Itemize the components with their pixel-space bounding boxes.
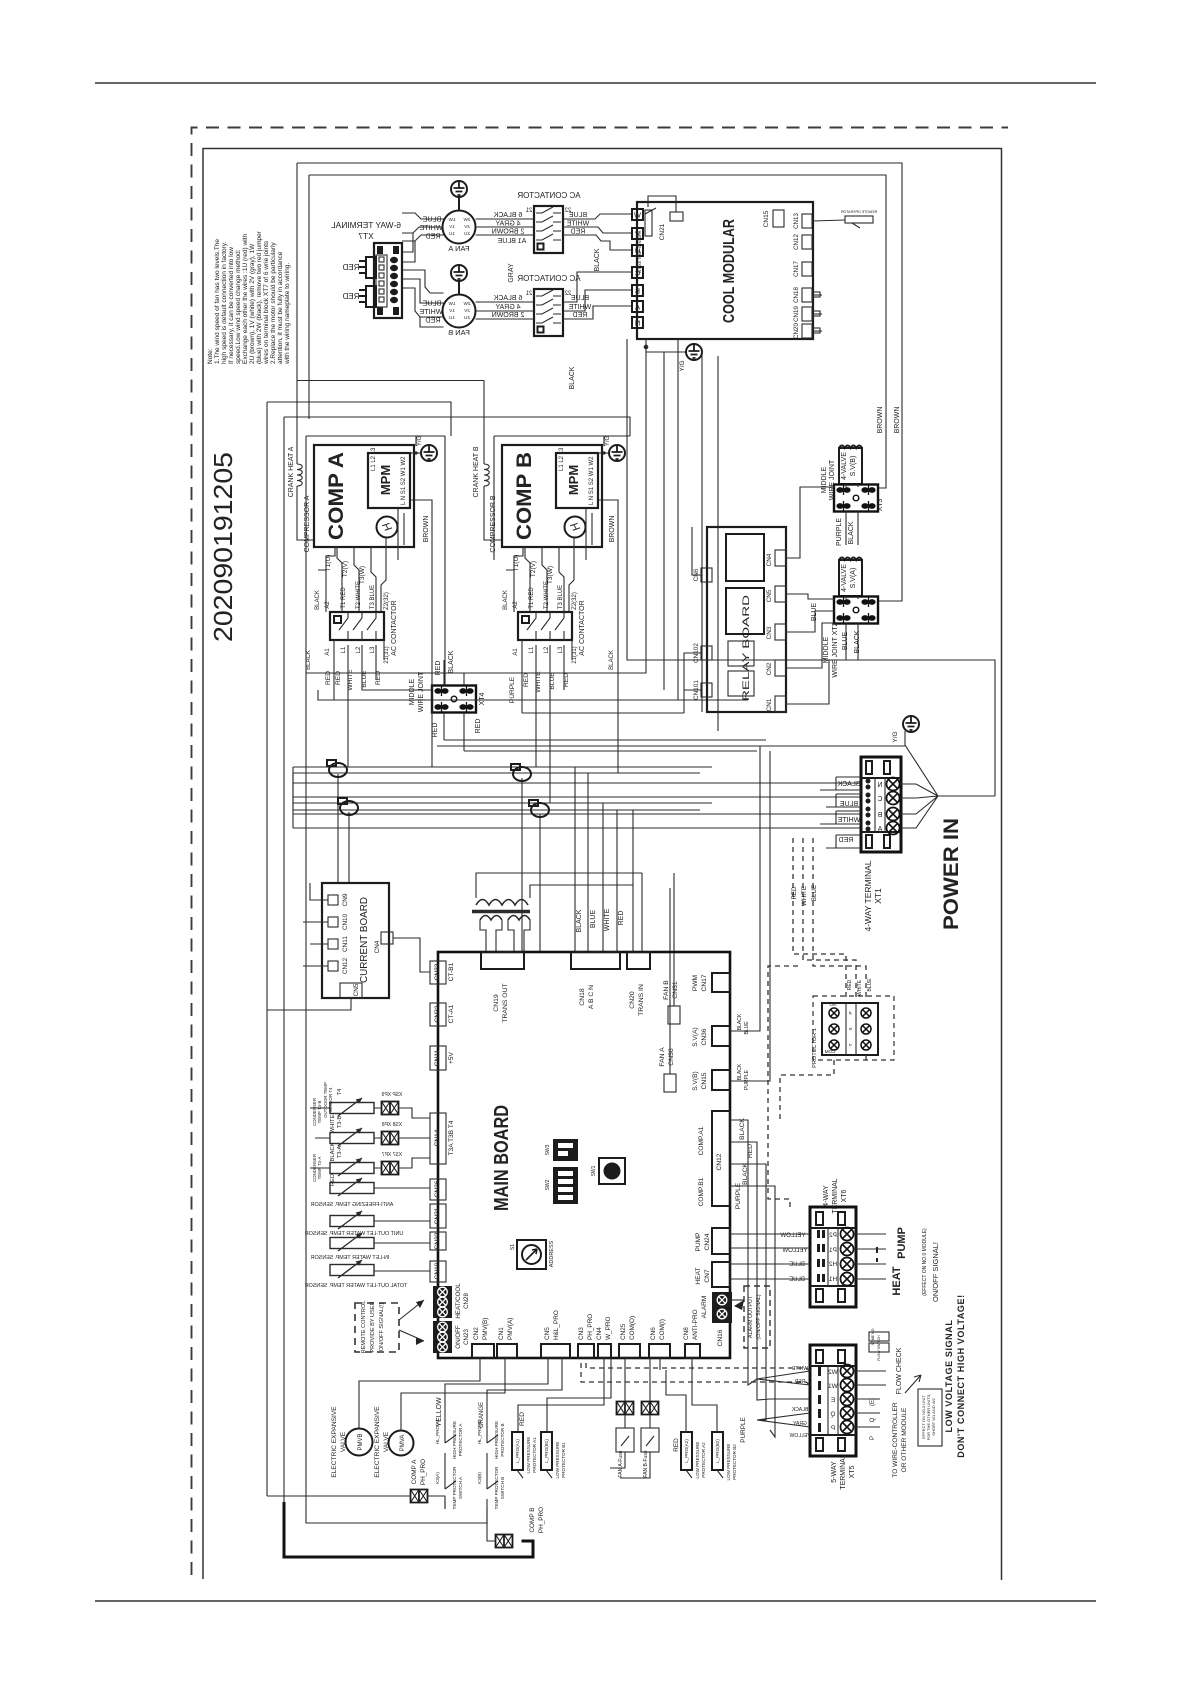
svg-text:B: B [635, 287, 640, 296]
svg-text:CN20: CN20 [793, 323, 800, 339]
svg-text:MPM: MPM [378, 465, 393, 495]
svg-text:L3: L3 [558, 646, 564, 653]
svg-text:2W: 2W [463, 217, 471, 222]
svg-text:AC CONTACTOR: AC CONTACTOR [391, 600, 398, 655]
svg-text:CN1: CN1 [766, 698, 773, 711]
svg-text:22: 22 [564, 291, 571, 297]
svg-text:TEMP T3-A: TEMP T3-A [317, 1157, 322, 1180]
svg-text:Q: Q [830, 1411, 835, 1418]
svg-text:S: S [848, 1027, 853, 1030]
svg-text:PMVA: PMVA [400, 1435, 406, 1452]
svg-text:S.V(A): S.V(A) [692, 1027, 699, 1046]
svg-text:HL_PRO(B): HL_PRO(B) [477, 1419, 482, 1444]
svg-text:T2 WHITE: T2 WHITE [356, 581, 362, 609]
svg-text:CN12: CN12 [716, 1153, 723, 1170]
svg-text:HL_PRO(A): HL_PRO(A) [435, 1419, 440, 1444]
svg-text:W1: W1 [828, 1383, 838, 1390]
svg-text:RED: RED [342, 292, 359, 301]
svg-text:BLACK: BLACK [739, 1118, 746, 1140]
svg-text:1V: 1V [448, 308, 455, 313]
svg-text:4 GRAY: 4 GRAY [495, 221, 520, 228]
svg-text:CN17: CN17 [701, 974, 708, 991]
svg-text:P2: P2 [829, 1232, 837, 1239]
svg-text:PH_PRO: PH_PRO [538, 1507, 545, 1533]
svg-text:AC CONTACTOR: AC CONTACTOR [579, 600, 586, 655]
svg-text:W2: W2 [828, 1369, 838, 1376]
svg-text:RELAY BOARD: RELAY BOARD [741, 595, 752, 701]
svg-text:BLACK: BLACK [737, 1063, 743, 1080]
svg-text:RED: RED [847, 979, 853, 990]
svg-text:L_PRO(B2): L_PRO(B2) [715, 1439, 720, 1463]
svg-text:CN20: CN20 [629, 991, 636, 1009]
svg-text:IN-LET WATER TEMP. SENSOR: IN-LET WATER TEMP. SENSOR [311, 1255, 390, 1261]
svg-text:PROTECTOR B2: PROTECTOR B2 [732, 1444, 737, 1480]
svg-text:21(31): 21(31) [384, 646, 390, 663]
svg-text:BLACK: BLACK [503, 590, 509, 610]
svg-text:BLACK: BLACK [737, 1013, 743, 1030]
svg-text:LOW PRESSURE: LOW PRESSURE [726, 1443, 731, 1480]
svg-text:VALVE: VALVE [383, 1431, 390, 1452]
svg-text:INTAKE TEMP. SENSORS: INTAKE TEMP. SENSORS [638, 230, 642, 273]
svg-text:TRANS IN: TRANS IN [638, 984, 645, 1016]
svg-text:A2: A2 [513, 601, 519, 609]
svg-text:FAN B-Fuse: FAN B-Fuse [643, 1450, 649, 1477]
svg-text:MPM: MPM [566, 465, 581, 495]
svg-text:WIRE JOINT: WIRE JOINT [829, 459, 836, 500]
svg-text:Y/G: Y/G [417, 436, 423, 447]
svg-text:L_PRO(A2): L_PRO(A2) [684, 1439, 689, 1463]
svg-text:BLACK: BLACK [837, 781, 860, 788]
svg-text:CN26: CN26 [434, 1180, 441, 1197]
svg-text:FAN B: FAN B [663, 980, 670, 1000]
svg-text:L N S1 S2 W1 W2: L N S1 S2 W1 W2 [401, 456, 407, 505]
svg-text:LOW PRESSURE: LOW PRESSURE [695, 1441, 700, 1478]
svg-text:1V: 1V [448, 224, 455, 229]
svg-text:H1: H1 [828, 1276, 837, 1283]
svg-text:BROWN: BROWN [877, 407, 884, 434]
svg-text:BLACK: BLACK [594, 248, 601, 271]
svg-text:PROTECTOR A: PROTECTOR A [458, 1423, 463, 1457]
svg-text:YELLOW: YELLOW [789, 1433, 810, 1439]
svg-text:BLACK: BLACK [576, 909, 583, 932]
svg-text:XT6: XT6 [841, 1189, 848, 1202]
svg-text:ON/OFF: ON/OFF [455, 1325, 462, 1349]
svg-text:attention, it must be fully in: attention, it must be fully in accordanc… [277, 251, 284, 364]
svg-text:high speed is default connecti: high speed is default connection in fact… [221, 241, 228, 364]
svg-text:1U: 1U [449, 315, 455, 320]
svg-text:C: C [877, 796, 882, 803]
svg-text:BLUE: BLUE [867, 978, 873, 992]
svg-text:RED: RED [839, 837, 854, 844]
svg-text:4-VALVE: 4-VALVE [841, 564, 848, 592]
svg-text:XT3: XT3 [877, 498, 884, 511]
svg-text:S.V(B): S.V(B) [692, 1071, 699, 1090]
svg-text:1.The wind speed of fan has tw: 1.The wind speed of fan has two levels.T… [214, 239, 221, 364]
svg-text:BROWN: BROWN [423, 516, 430, 543]
svg-text:CN21: CN21 [434, 1207, 441, 1224]
svg-text:A: A [635, 303, 640, 312]
svg-text:COM(O): COM(O) [629, 1316, 636, 1340]
svg-text:ALARM: ALARM [701, 1296, 708, 1319]
svg-text:SW3: SW3 [545, 1144, 551, 1155]
svg-text:COMP B: COMP B [513, 452, 536, 540]
svg-text:SW1: SW1 [591, 1165, 597, 1176]
svg-text:W_PRO: W_PRO [605, 1317, 612, 1340]
svg-text:H&L_PRO: H&L_PRO [553, 1310, 560, 1340]
svg-text:ANTI-FREEZING TEMP. SENSOR: ANTI-FREEZING TEMP. SENSOR [311, 1202, 394, 1208]
svg-text:K3(B): K3(B) [477, 1472, 482, 1484]
svg-text:WHITE: WHITE [568, 304, 591, 311]
svg-text:RED: RED [791, 886, 798, 900]
svg-text:Y/G: Y/G [679, 360, 686, 371]
svg-text:L1 L2 L3: L1 L2 L3 [559, 447, 565, 471]
svg-text:ON/OFF SIGNAL(!): ON/OFF SIGNAL(!) [379, 1303, 385, 1352]
svg-text:PROTECTOR B1: PROTECTOR B1 [561, 1442, 566, 1478]
svg-text:S1: S1 [510, 1244, 516, 1250]
svg-text:T1 RED: T1 RED [341, 587, 347, 609]
svg-text:CURRENT BOARD: CURRENT BOARD [359, 897, 370, 983]
svg-text:ON/OFF SIGNAL!: ON/OFF SIGNAL! [931, 1242, 940, 1302]
svg-text:TRANS OUT: TRANS OUT [502, 983, 509, 1022]
svg-text:LOW PRESSURE: LOW PRESSURE [526, 1436, 531, 1473]
svg-text:CN5: CN5 [544, 1327, 551, 1340]
svg-text:COMP.B1: COMP.B1 [698, 1177, 705, 1206]
svg-text:PURPLE: PURPLE [836, 518, 843, 546]
svg-text:ELECTRIC EXPANSIVE: ELECTRIC EXPANSIVE [331, 1406, 338, 1478]
svg-text:CN25: CN25 [620, 1323, 627, 1340]
svg-text:Y/G: Y/G [892, 731, 899, 742]
svg-text:TERMINAL: TERMINAL [832, 1178, 839, 1214]
svg-text:CN12: CN12 [342, 957, 349, 974]
svg-text:XT1: XT1 [873, 888, 883, 904]
svg-text:GRAY: GRAY [792, 1421, 806, 1427]
svg-text:T3A T3B T4: T3A T3B T4 [448, 1120, 455, 1155]
svg-text:BLACK: BLACK [315, 590, 321, 610]
svg-text:PH_PRO: PH_PRO [587, 1314, 594, 1340]
svg-text:L_PRO(A1): L_PRO(A1) [515, 1439, 520, 1463]
svg-text:4-VALVE: 4-VALVE [841, 452, 848, 480]
svg-text:Z2(32): Z2(32) [384, 592, 390, 610]
svg-text:1W: 1W [448, 217, 456, 222]
svg-text:4-WAY: 4-WAY [823, 1185, 830, 1207]
svg-text:MIDDLE: MIDDLE [409, 678, 416, 705]
svg-text:2V: 2V [463, 224, 470, 229]
svg-text:BLACK: BLACK [742, 1163, 749, 1185]
svg-text:PUMP: PUMP [896, 1227, 908, 1259]
svg-text:AC CONTACTOR: AC CONTACTOR [517, 191, 580, 200]
svg-text:T1(U): T1(U) [513, 555, 520, 572]
svg-text:CT-A1: CT-A1 [448, 1004, 455, 1023]
svg-text:BLACK: BLACK [569, 366, 576, 389]
svg-text:WIRE JOINT XT2: WIRE JOINT XT2 [832, 622, 839, 677]
svg-text:L1: L1 [341, 646, 347, 653]
svg-text:RED: RED [571, 229, 586, 236]
svg-text:TO WIRE-CONTROLLER: TO WIRE-CONTROLLER [892, 1402, 899, 1478]
svg-text:Q: Q [870, 1417, 876, 1422]
svg-text:T: T [848, 1043, 853, 1046]
svg-text:RED: RED [425, 316, 440, 325]
svg-text:PURPLE: PURPLE [735, 1182, 742, 1209]
svg-text:RED: RED [425, 232, 440, 241]
svg-text:HIGH PRESSURE: HIGH PRESSURE [494, 1421, 499, 1459]
svg-text:BLACK: BLACK [791, 1407, 808, 1413]
svg-text:CRANK HEAT A: CRANK HEAT A [288, 446, 295, 497]
svg-text:+5V: +5V [448, 1051, 455, 1064]
svg-text:CN7: CN7 [704, 1269, 711, 1283]
svg-text:speed.Low wind speed change me: speed.Low wind speed change method: [235, 249, 242, 364]
svg-text:WIRE JOINT: WIRE JOINT [418, 671, 425, 712]
svg-text:T4: T4 [337, 1088, 343, 1096]
svg-text:(blue) with 2W (black), remove: (blue) with 2W (black), remove two red j… [256, 230, 263, 364]
svg-text:HEAT/COOL: HEAT/COOL [455, 1283, 462, 1319]
svg-text:PURPLE: PURPLE [740, 1417, 747, 1443]
svg-text:BLACK: BLACK [330, 1142, 336, 1161]
svg-text:OR OTHER MODULE: OR OTHER MODULE [901, 1407, 908, 1472]
svg-text:XSP XP9: XSP XP9 [381, 1092, 402, 1098]
svg-text:CN33: CN33 [434, 963, 441, 980]
svg-text:Y/G: Y/G [605, 436, 611, 447]
svg-text:WHITE: WHITE [566, 221, 589, 228]
svg-text:BLACK: BLACK [609, 650, 615, 670]
svg-text:6 BLACK: 6 BLACK [493, 212, 522, 219]
svg-text:AC CONTACTOR: AC CONTACTOR [517, 274, 580, 283]
svg-text:P1: P1 [829, 1247, 837, 1254]
svg-text:HIGH PRESSURE: HIGH PRESSURE [452, 1421, 457, 1459]
svg-text:2W: 2W [463, 301, 471, 306]
svg-text:COMPRESSOR A: COMPRESSOR A [304, 495, 311, 552]
svg-text:BLUE: BLUE [571, 295, 590, 302]
svg-text:CN36: CN36 [701, 1028, 708, 1045]
svg-text:21(31): 21(31) [572, 646, 578, 663]
svg-text:WHITE: WHITE [330, 1115, 336, 1134]
svg-text:1W: 1W [448, 301, 456, 306]
svg-text:FLOW SWITCH: FLOW SWITCH [877, 1335, 881, 1361]
svg-text:L2: L2 [356, 646, 362, 653]
svg-text:BLACK: BLACK [448, 650, 455, 673]
svg-text:CN31: CN31 [672, 981, 679, 999]
svg-text:A1: A1 [325, 648, 331, 656]
svg-text:4 GRAY: 4 GRAY [495, 304, 520, 311]
svg-text:L_PRO(B1): L_PRO(B1) [544, 1439, 549, 1463]
svg-text:CN18: CN18 [579, 988, 586, 1006]
svg-text:Exchange each other the wires: Exchange each other the wires :1U (red) … [242, 234, 249, 364]
svg-text:FAN A: FAN A [448, 244, 469, 253]
svg-text:CN11: CN11 [434, 1049, 441, 1066]
svg-text:SOME NO: SOME NO [871, 1328, 875, 1345]
svg-text:CN4: CN4 [374, 940, 381, 953]
svg-text:wires on terminal block XT7 of: wires on terminal block XT7 of 6 wrie jo… [263, 240, 270, 365]
svg-text:LOW VOLTAGE SIGNAL: LOW VOLTAGE SIGNAL [944, 1320, 954, 1433]
svg-text:TEMP PROTECTOR: TEMP PROTECTOR [452, 1466, 457, 1509]
svg-text:A1 BLUE: A1 BLUE [497, 238, 526, 245]
svg-text:5-WAY: 5-WAY [831, 1461, 838, 1483]
svg-text:SENSOR T4: SENSOR T4 [328, 1087, 333, 1112]
svg-text:CN15: CN15 [701, 1072, 708, 1089]
svg-text:COMP A: COMP A [411, 1459, 418, 1484]
svg-text:L1 L2 L3: L1 L2 L3 [371, 447, 377, 471]
svg-text:BLUE: BLUE [744, 1021, 750, 1035]
svg-text:ADDRESS: ADDRESS [549, 1240, 555, 1267]
svg-text:TEMP PROTECTOR: TEMP PROTECTOR [494, 1466, 499, 1509]
svg-text:SHORT W1 AND W2: SHORT W1 AND W2 [931, 1398, 936, 1436]
svg-text:COM: COM [824, 1049, 835, 1054]
svg-text:HEAT: HEAT [695, 1267, 702, 1284]
svg-text:L2: L2 [544, 646, 550, 653]
svg-text:CN13: CN13 [793, 213, 800, 229]
svg-text:RED: RED [519, 1412, 526, 1426]
svg-text:CN32: CN32 [434, 1005, 441, 1022]
svg-text:PWM: PWM [692, 975, 699, 991]
svg-text:4-WAY TERMINAL: 4-WAY TERMINAL [863, 860, 873, 931]
svg-text:VALVE: VALVE [340, 1431, 347, 1452]
svg-text:ELECTRIC EXPANSIVE: ELECTRIC EXPANSIVE [374, 1406, 381, 1478]
svg-text:BLACK: BLACK [306, 650, 312, 670]
svg-text:W: W [633, 211, 641, 220]
svg-text:CN5: CN5 [353, 983, 360, 996]
svg-text:2V: 2V [463, 308, 470, 313]
svg-text:A: A [877, 826, 882, 833]
svg-text:TEMP T3-B: TEMP T3-B [317, 1101, 322, 1124]
svg-text:21: 21 [525, 291, 532, 297]
svg-text:H2: H2 [828, 1261, 837, 1268]
svg-text:2U: 2U [464, 315, 470, 320]
svg-text:PROTECTOR A1: PROTECTOR A1 [532, 1437, 537, 1473]
svg-text:CN23: CN23 [463, 1329, 470, 1345]
svg-text:Note:: Note: [207, 348, 214, 364]
svg-text:BLUE: BLUE [789, 1262, 805, 1268]
svg-text:2 BROWN: 2 BROWN [492, 312, 525, 319]
svg-text:PROTECTOR 1: PROTECTOR 1 [812, 1028, 818, 1068]
svg-text:2U (brown), 1V (white) with 2V: 2U (brown), 1V (white) with 2V (gray), 1… [249, 243, 256, 364]
svg-text:N: N [635, 319, 640, 328]
svg-text:21: 21 [525, 208, 532, 214]
svg-text:POWER IN: POWER IN [940, 818, 963, 930]
svg-text:(E): (E) [870, 1398, 876, 1406]
svg-text:L N S1 S2 W1 W2: L N S1 S2 W1 W2 [589, 456, 595, 505]
svg-text:CT-B1: CT-B1 [448, 962, 455, 981]
svg-text:XT5: XT5 [849, 1465, 856, 1478]
svg-text:COM(I): COM(I) [659, 1319, 666, 1340]
svg-text:CN18: CN18 [793, 287, 800, 303]
svg-text:SWITCH A: SWITCH A [458, 1476, 463, 1499]
svg-text:CN15: CN15 [763, 210, 770, 227]
svg-text:L1: L1 [529, 646, 535, 653]
svg-text:CN8: CN8 [683, 1327, 690, 1340]
svg-text:CN12: CN12 [793, 234, 800, 250]
svg-text:CN2: CN2 [766, 662, 773, 675]
svg-text:CN4: CN4 [766, 553, 773, 566]
svg-text:FAN A: FAN A [659, 1047, 666, 1067]
svg-text:CN28: CN28 [463, 1293, 470, 1309]
svg-text:SWITCH B: SWITCH B [500, 1477, 505, 1499]
svg-text:CN1: CN1 [498, 1327, 505, 1340]
svg-text:A1: A1 [513, 648, 519, 656]
svg-text:RED: RED [673, 1438, 680, 1452]
svg-text:CN21: CN21 [659, 223, 666, 240]
svg-text:BROWN: BROWN [894, 407, 901, 434]
svg-text:PROVIDE BY USER: PROVIDE BY USER [370, 1301, 376, 1352]
svg-text:RED: RED [342, 263, 359, 272]
svg-text:LOW PRESSURE: LOW PRESSURE [555, 1441, 560, 1478]
svg-text:ALARM OUTPUT: ALARM OUTPUT [748, 1295, 754, 1338]
svg-text:YELLOW: YELLOW [782, 1248, 807, 1254]
svg-text:COOL MODULAR: COOL MODULAR [721, 219, 738, 323]
svg-text:CN19: CN19 [493, 994, 500, 1012]
svg-text:S.V(B): S.V(B) [850, 456, 857, 477]
svg-text:WHITE: WHITE [837, 817, 860, 824]
svg-text:T2(V): T2(V) [342, 561, 349, 577]
svg-text:CN19: CN19 [793, 306, 800, 322]
svg-text:NO: NO [829, 1002, 836, 1007]
svg-text:CN17: CN17 [793, 261, 800, 277]
svg-text:HEAT: HEAT [891, 1266, 903, 1295]
svg-text:MIDDLE: MIDDLE [821, 466, 828, 493]
svg-text:MAIN BOARD: MAIN BOARD [491, 1105, 513, 1211]
svg-text:XT7: XT7 [358, 231, 374, 241]
svg-text:TOTAL OUT-LET WATER TEMP. SENS: TOTAL OUT-LET WATER TEMP. SENSOR [305, 1283, 408, 1289]
svg-text:PMV(B): PMV(B) [482, 1318, 489, 1340]
svg-text:T3-A: T3-A [337, 1146, 343, 1159]
svg-text:1U: 1U [449, 231, 455, 236]
svg-text:T3-B: T3-B [337, 1116, 343, 1129]
svg-text:CN3: CN3 [578, 1327, 585, 1340]
svg-text:CRANK HEAT B: CRANK HEAT B [473, 446, 480, 497]
svg-text:B: B [877, 812, 882, 819]
svg-text:2.Replace the motor should be: 2.Replace the motor should be particular… [270, 241, 277, 364]
svg-text:TERMINAL: TERMINAL [840, 1454, 847, 1490]
svg-text:CN22: CN22 [434, 1232, 441, 1249]
svg-text:T3 BLUE: T3 BLUE [558, 585, 564, 609]
svg-text:2 BROWN: 2 BROWN [492, 229, 525, 236]
svg-text:CN10: CN10 [342, 913, 349, 930]
svg-text:RED: RED [747, 1144, 754, 1158]
svg-text:GRAY: GRAY [508, 263, 515, 283]
svg-text:RED: RED [475, 719, 482, 734]
svg-text:PUMP: PUMP [695, 1232, 702, 1252]
svg-text:RED: RED [330, 1174, 336, 1186]
svg-text:COMP.A1: COMP.A1 [698, 1126, 705, 1155]
svg-text:(EFFECT ON NO.0 MODULE): (EFFECT ON NO.0 MODULE) [922, 1228, 928, 1296]
svg-text:BLUE: BLUE [569, 212, 588, 219]
svg-text:CN11: CN11 [342, 936, 349, 952]
svg-text:PURPLE: PURPLE [509, 676, 516, 703]
svg-text:UNIT OUT-LET WATER TEMP. SENSO: UNIT OUT-LET WATER TEMP. SENSOR [305, 1231, 404, 1237]
svg-text:L3: L3 [370, 646, 376, 653]
svg-text:BROWN: BROWN [609, 516, 616, 543]
svg-text:PMV(A): PMV(A) [507, 1318, 514, 1340]
svg-text:WHITE: WHITE [857, 979, 863, 996]
svg-text:ANTI-PRO: ANTI-PRO [692, 1309, 699, 1340]
svg-text:DON'T CONNECT HIGH VOLTAGE!: DON'T CONNECT HIGH VOLTAGE! [956, 1294, 966, 1458]
svg-text:CN5: CN5 [766, 589, 773, 602]
svg-text:MIDDLE: MIDDLE [823, 636, 830, 663]
svg-text:T1 RED: T1 RED [529, 587, 535, 609]
svg-text:BLUE: BLUE [590, 910, 597, 929]
svg-text:CN6: CN6 [650, 1327, 657, 1340]
svg-text:CN2: CN2 [473, 1327, 480, 1340]
svg-text:PURPLE: PURPLE [744, 1069, 750, 1090]
svg-text:CN4: CN4 [596, 1327, 603, 1340]
svg-text:T1(U): T1(U) [325, 555, 332, 572]
svg-text:BLUE: BLUE [789, 1277, 805, 1283]
svg-text:E: E [831, 1397, 835, 1404]
svg-text:P: P [848, 1011, 853, 1014]
svg-text:If necessary, it can be conver: If necessary, it can be converted into l… [228, 247, 235, 364]
svg-text:CN10: CN10 [434, 1262, 441, 1279]
svg-text:S.V(A): S.V(A) [850, 568, 857, 589]
svg-text:PROTECTOR B: PROTECTOR B [500, 1423, 505, 1456]
svg-text:P: P [831, 1425, 835, 1432]
